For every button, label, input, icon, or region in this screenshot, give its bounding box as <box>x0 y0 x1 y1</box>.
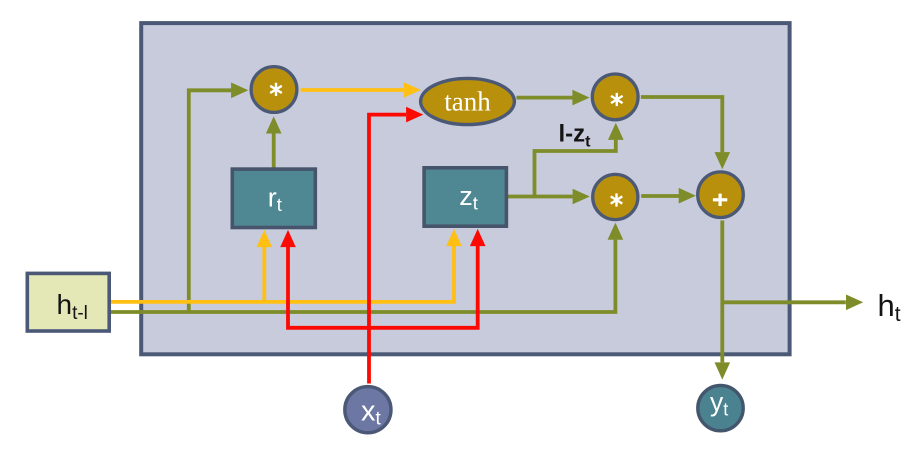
wire yellow h(t-1) gate bus <box>109 246 454 302</box>
arrowhead into mult1 bottom <box>266 116 282 133</box>
wire olive h(t-1) recurrent bus <box>109 240 615 312</box>
arrowhead into mult1 left <box>231 83 248 99</box>
sum node plus <box>698 172 744 218</box>
arrowhead into plus top <box>715 152 731 169</box>
wire red x_t cross bus to gates <box>288 246 478 328</box>
wire yellow branch up to r_t <box>262 247 266 302</box>
multiply node mult1 <box>251 67 297 113</box>
arrowhead red into z_t bottom <box>470 229 486 246</box>
wire olive plus output down, h_t branch and y_t drop <box>722 221 846 363</box>
arrowhead into mult2 left <box>572 90 589 106</box>
arrowhead into y_t top <box>715 362 731 379</box>
input box h(t-1) <box>27 273 109 331</box>
tanh node U-tanh <box>421 78 515 124</box>
arrowhead into mult3 left <box>573 189 590 205</box>
wire olive branch up to mult1 <box>189 90 232 312</box>
wire olive mult2 output to plus <box>641 97 722 152</box>
input node x_t <box>345 387 391 433</box>
output node y_t <box>698 385 743 430</box>
gate box z_t <box>424 168 506 226</box>
GRU cell enclosure box <box>141 23 789 354</box>
arrowhead into z_t bottom <box>446 229 462 246</box>
arrowhead into tanh lower-left <box>406 107 423 123</box>
multiply node mult3 <box>593 174 638 219</box>
arrowhead red into r_t bottom <box>280 230 296 247</box>
svg-text:tanh: tanh <box>444 87 491 117</box>
arrowhead into mult2 bottom <box>608 123 624 140</box>
arrowhead into mult3 bottom <box>608 223 624 240</box>
wire olive mult3 output to plus <box>641 194 679 198</box>
arrowhead into r_t bottom <box>257 230 273 247</box>
wire olive z_t output to mult3 <box>506 195 572 199</box>
svg-text:ht: ht <box>878 288 901 326</box>
wire olive 1-z_t branch to mult2 <box>535 140 616 197</box>
arrowhead to h_t label <box>846 295 863 311</box>
wire red x_t input to tanh <box>369 115 406 384</box>
wire olive r_t output to mult1 <box>272 133 276 169</box>
multiply node mult2 <box>592 74 638 120</box>
gate box r_t <box>232 169 315 227</box>
wire olive tanh output to mult2 <box>517 96 573 100</box>
arrowhead into plus left <box>679 188 696 204</box>
wire yellow mult1 output to tanh <box>301 88 404 92</box>
arrowhead into tanh left <box>404 82 421 98</box>
